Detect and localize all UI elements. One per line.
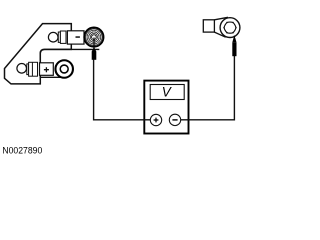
lug tangent bottom	[214, 32, 225, 37]
negative lead flange	[58, 32, 60, 42]
svg-text:N0027890: N0027890	[2, 145, 42, 156]
left probe body	[92, 52, 97, 60]
positive lead flange	[27, 64, 29, 75]
minus label	[76, 36, 80, 38]
voltage regulator bracket	[5, 24, 72, 84]
positive jack	[150, 114, 161, 125]
battery ring terminal	[220, 18, 240, 38]
positive lead end cap (bottom tube)	[17, 64, 27, 74]
plus label	[44, 67, 49, 72]
right probe needle	[233, 36, 235, 41]
voltmeter display	[150, 85, 184, 100]
right probe body	[232, 42, 236, 56]
positive lead barrel	[29, 62, 38, 76]
positive terminal block	[40, 63, 54, 76]
negative jack	[169, 114, 180, 125]
voltmeter body	[144, 81, 188, 134]
negative ring terminal	[84, 27, 103, 46]
lug tangent top	[214, 17, 228, 20]
negative terminal block	[67, 31, 84, 44]
barrel seam	[31, 62, 33, 76]
positive ring terminal	[55, 60, 73, 78]
battery terminal lug tongue	[203, 20, 214, 32]
negative lead barrel	[60, 31, 66, 43]
test lead wire left	[94, 60, 151, 120]
test lead wire right	[181, 56, 235, 120]
nut hex	[224, 22, 237, 33]
left probe tip cone	[92, 48, 97, 51]
left probe needle	[93, 38, 95, 50]
minus glyph	[172, 119, 177, 121]
nut circle	[224, 22, 235, 33]
plus glyph	[154, 118, 159, 123]
right probe tip cone	[232, 38, 236, 43]
regulator body plate	[40, 49, 99, 77]
negative lead end cap	[48, 32, 58, 42]
